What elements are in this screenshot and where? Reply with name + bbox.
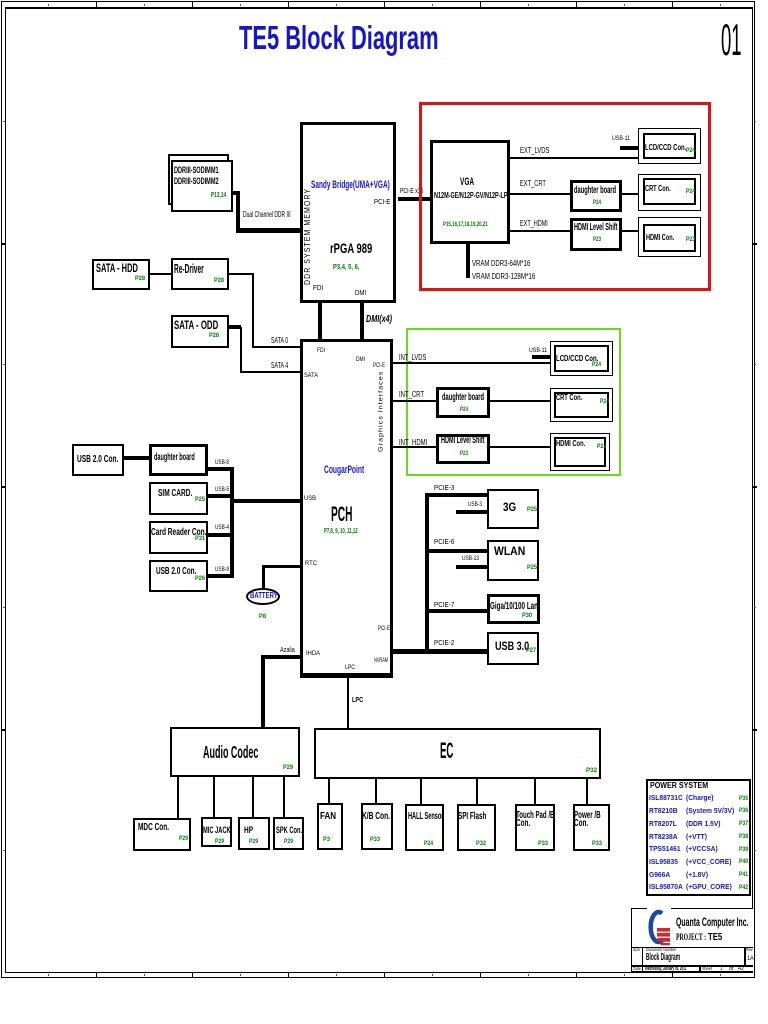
HDMI connector outer red: [638, 217, 701, 257]
zone number mark top 2: [144, 4, 145, 7]
zone number mark bottom 5: [432, 974, 433, 977]
title block date cell divider: [642, 965, 644, 973]
INT_LVDS net label: [399, 354, 426, 362]
USB 2.0 Con. connector bottom: [149, 560, 208, 592]
power rail TPS51461 function: [686, 845, 718, 853]
wire EC to TouchPad: [534, 777, 536, 804]
power rail RT8238A name: [649, 833, 678, 841]
wire EC to SPI: [476, 777, 478, 804]
wire SATA-ODD down to SATA 4: [240, 327, 242, 372]
page ref P24 lcd green: [592, 362, 601, 369]
USB 2.0 Con. label bottom: [156, 567, 196, 577]
page ref P24 crt green: [600, 399, 609, 406]
Card Reader Con. label: [151, 528, 206, 538]
zone divider tick top 3: [288, 2, 289, 7]
BATTERY label: [250, 592, 278, 600]
INT_HDMI net label: [399, 439, 427, 447]
USB-11 net label green: [529, 348, 547, 355]
wire INT_HDMI left: [393, 446, 436, 448]
Re-Driver block: [171, 258, 229, 290]
wire EXT_HDMI left: [510, 230, 570, 232]
zone divider tick bottom 6: [576, 972, 577, 978]
PCI-E x16 bus Sandy Bridge to VGA: [398, 197, 430, 201]
page ref P33 kb: [370, 837, 380, 843]
zone number mark bottom 8: [720, 974, 721, 977]
Azalia bus horizontal from PCH: [261, 655, 300, 659]
USB-11 net label red: [612, 136, 630, 143]
PCIE-3 net label: [434, 484, 454, 491]
DDRIII-SODIMM front box: [171, 160, 233, 212]
LPC bus PCH to EC: [347, 677, 349, 728]
WLAN module: [487, 540, 539, 581]
USB 2.0 Con. connector left: [72, 444, 124, 476]
POWER SYSTEM table box: [646, 779, 751, 896]
USB 2.0 Con. label left: [77, 455, 118, 465]
rev value 1A: [747, 956, 754, 962]
LCD/CCD connector outer red: [638, 128, 701, 164]
power rail RT8207L function: [686, 820, 721, 828]
zone number mark top 4: [336, 4, 337, 7]
PCH label: [331, 504, 352, 525]
DDRIII-SODIMM back box: [168, 154, 229, 205]
wire SATA 4 into PCH: [240, 371, 300, 373]
EXT_LVDS net label: [520, 147, 549, 155]
PCH pin RTC: [305, 561, 317, 568]
page ref P29 mic: [215, 839, 224, 845]
HALL Sensor connector: [405, 804, 444, 851]
USB-9 net label: [215, 567, 229, 573]
INT_CRT net label: [399, 391, 424, 399]
page ref P30 lan: [522, 613, 532, 620]
Touch Pad /B Con. connector: [515, 804, 555, 851]
zone number mark bottom 4: [336, 974, 337, 977]
sheet title: [239, 22, 439, 55]
zone divider tick bottom 2: [192, 972, 193, 978]
wire codec to MDC: [177, 775, 179, 818]
zone divider tick left 1: [2, 243, 5, 245]
PCIE-7 branch to LAN: [425, 609, 487, 613]
zone letter mark left 2: [3, 364, 5, 365]
SPK Con. connector: [273, 817, 304, 850]
title block rev cell divider: [744, 947, 746, 967]
rPGA 989 label: [330, 242, 372, 255]
zone letter mark right 1: [754, 121, 756, 122]
power rail RT8238A page P38: [739, 834, 748, 840]
zone divider tick bottom 4: [384, 972, 385, 978]
POWER SYSTEM title: [650, 781, 708, 789]
wire EXT_LVDS: [510, 157, 638, 159]
DDRIII-SODIMM1 label: [174, 166, 219, 175]
PCH pin PCI-E top: [373, 363, 385, 370]
DDR bus stub from SODIMM: [233, 191, 240, 195]
page ref P3,4,5,6: [333, 263, 359, 270]
USB-4 net label: [215, 525, 229, 531]
Quanta Computer Inc. label: [676, 916, 749, 928]
SATA - ODD connector: [171, 315, 229, 348]
PCIE-3 branch to 3G: [425, 493, 487, 497]
power rail ISL95870A name: [649, 883, 683, 891]
power rail ISL95835 function: [686, 858, 731, 866]
zone divider tick bottom 7: [672, 972, 673, 978]
page ref P24 lcd red: [686, 148, 695, 155]
EXT_HDMI net label: [520, 220, 548, 228]
HDMI Con. label red: [646, 233, 674, 242]
power rail ISL88731C page P35: [739, 796, 748, 802]
wire INT_CRT right: [490, 400, 550, 402]
EXT_CRT net label: [520, 180, 546, 188]
wire codec to SPK: [283, 775, 285, 817]
SATA - ODD label: [174, 319, 218, 331]
wire USB-4 stub: [208, 533, 234, 537]
PCH pin FDI: [317, 348, 325, 355]
PCIE-2 net label: [434, 639, 454, 646]
page ref P29 spk: [284, 839, 293, 845]
zone divider tick top 5: [480, 2, 481, 7]
LCD/CCD connector outer green: [550, 341, 613, 376]
title block sheet cell divider: [699, 965, 701, 973]
page ref P29 mdc: [179, 836, 188, 842]
zone number mark top 6: [528, 4, 529, 7]
SATA 0 net label: [271, 337, 288, 345]
DDRIII-SODIMM2 label: [174, 177, 219, 186]
CPU block Sandy Bridge rPGA 989: [300, 122, 396, 303]
zone number mark bottom 3: [240, 974, 241, 977]
zone letter mark left 4: [3, 850, 5, 851]
page ref P7-12: [324, 527, 358, 534]
Block Diagram doc title: [646, 953, 680, 963]
LCD/CCD connector inner red: [643, 133, 696, 159]
page ref P32 ec: [586, 768, 597, 775]
Power /B label line2: [574, 819, 588, 829]
wire USB-11 stub green: [532, 355, 550, 359]
CRT connector inner green: [554, 392, 609, 418]
power rail RT8207L name: [649, 820, 677, 828]
daughter board label red: [574, 186, 616, 196]
Giga/10/100 Lan label: [490, 602, 538, 612]
wire USB-8 stub: [208, 467, 234, 471]
power rail RT8207L page P37: [739, 821, 748, 827]
power rail RT8210B page P36: [739, 808, 748, 814]
PCH pin SATA: [304, 373, 318, 380]
sheet number 01: [721, 18, 742, 63]
page ref P23 shift green: [460, 451, 468, 458]
HDMI Level Shift label red: [574, 223, 618, 233]
PCIE-6 branch to WLAN: [425, 549, 487, 553]
PROJECT label: [676, 933, 706, 942]
3G label: [503, 503, 516, 515]
Date cell label: [633, 967, 641, 972]
LCD/CCD connector inner green: [554, 345, 609, 372]
title block top border gap (white, behind logo): [647, 907, 671, 910]
USB-5 net label: [215, 487, 229, 493]
title block size cell divider: [642, 947, 644, 967]
wire EC to PowerB: [586, 777, 588, 804]
title block separator row1: [631, 947, 753, 949]
SATA - HDD label: [96, 262, 138, 274]
DDR bus vertical: [236, 191, 240, 232]
MDC Con. label: [138, 823, 169, 833]
vertical label Graphics Interfaces: [381, 411, 383, 413]
wire EXT_CRT left: [510, 193, 570, 195]
Touch Pad /B label line1: [516, 811, 554, 821]
Sandy Bridge pin label DMI: [355, 289, 366, 296]
Power /B label line1: [574, 811, 601, 821]
sheet of label: [729, 967, 734, 972]
HDMI connector outer green: [550, 433, 610, 471]
PCH pin LPC: [345, 665, 355, 672]
daughter board block left: [149, 444, 208, 476]
SPK Con. label: [276, 825, 302, 834]
CRT Con. label green: [556, 393, 582, 402]
page ref P23 hdmi red: [686, 237, 695, 244]
LPC net label: [352, 696, 363, 703]
SATA - HDD connector: [92, 259, 150, 290]
HDMI connector inner red: [643, 224, 696, 252]
USB 3.0 block: [487, 632, 539, 665]
BATTERY symbol ellipse: [246, 588, 280, 605]
power rail RT8238A function: [686, 833, 707, 841]
daughter board label left: [154, 453, 195, 463]
wire INT_HDMI right: [490, 446, 550, 448]
wire USB-9 stub: [208, 574, 234, 578]
daughter board block red: [570, 180, 622, 212]
EC block: [314, 728, 601, 779]
PCH bottom thick edge: [300, 673, 393, 678]
Size cell label: [633, 948, 640, 953]
Power /B Con. connector: [573, 804, 610, 851]
zone number mark bottom 1: [48, 974, 49, 977]
zone divider tick left 3: [2, 729, 5, 731]
wire SATA 0 into PCH: [252, 346, 300, 348]
wire USB2 to daughter board: [124, 456, 149, 460]
daughter board block green: [436, 387, 490, 418]
page ref P15-21: [443, 222, 488, 229]
SPI Flash connector: [457, 804, 496, 851]
wire codec to HP: [252, 775, 254, 817]
date value: [645, 967, 686, 973]
MDC Con. connector: [133, 818, 191, 851]
zone letter mark right 4: [754, 850, 756, 851]
USB bus horizontal into PCH: [230, 499, 300, 503]
zone number mark bottom 6: [528, 974, 529, 977]
HDMI Con. label green: [556, 439, 585, 448]
sheet current 1: [720, 967, 723, 973]
power rail ISL95870A page P42: [739, 885, 748, 891]
HDMI Level Shift block red: [570, 218, 622, 251]
page ref P26 usb2: [195, 576, 205, 582]
VRAM bus from VGA: [466, 244, 470, 278]
page ref P32 spi: [476, 841, 486, 847]
zone number mark top 1: [48, 4, 49, 7]
page ref P24 hall: [424, 841, 433, 847]
zone number mark top 8: [720, 4, 721, 7]
EC label: [440, 740, 453, 763]
wire EC to HALL: [420, 777, 422, 804]
page ref P27 usb3: [526, 648, 536, 655]
power rail TPS51461 name: [649, 845, 681, 853]
power rail ISL95835 name: [649, 858, 678, 866]
USB bus vertical: [230, 467, 234, 578]
red highlight group box: [419, 102, 711, 291]
power rail RT8210B name: [649, 807, 678, 815]
PCH block CougarPoint: [300, 339, 393, 677]
Re-Driver label: [174, 262, 204, 275]
zone letter mark right 2: [754, 364, 756, 365]
VRAM DDR3-128M*16 label: [472, 272, 535, 280]
WLAN label: [494, 547, 525, 559]
wire codec to MIC JACK: [213, 775, 215, 817]
page ref P29 codec: [283, 765, 293, 772]
MIC JACK connector: [201, 817, 232, 847]
wire USB-3 stub: [456, 510, 487, 514]
page ref P33 power: [592, 841, 602, 847]
zone divider tick bottom 3: [288, 972, 289, 978]
VGA label: [460, 177, 474, 188]
zone number mark bottom 2: [144, 974, 145, 977]
HALL Sensor label: [408, 812, 443, 822]
page ref P8 battery: [259, 614, 266, 620]
zone letter mark right 3: [754, 607, 756, 608]
power rail ISL88731C function: [686, 794, 713, 802]
SPI Flash label: [458, 812, 486, 822]
wire USB-13 stub: [456, 565, 487, 569]
vertical label DDR SYSTEM MEMORY: [307, 243, 309, 245]
Sheet cell label: [702, 967, 712, 972]
Document Number cell label: [646, 948, 676, 953]
page ref P28 odd: [209, 333, 219, 340]
page ref P25 3g: [527, 507, 537, 514]
page ref P24 daughter red: [593, 200, 601, 207]
HP label: [244, 825, 253, 834]
zone number mark top 5: [432, 4, 433, 7]
PCIE-6 net label: [434, 538, 454, 545]
TE5 project value: [708, 933, 722, 943]
PCIE-2 bus PCH to USB 3.0: [393, 649, 487, 654]
zone divider tick top 6: [576, 2, 577, 7]
power rail G966A name: [649, 871, 670, 879]
Rev cell label: [746, 948, 753, 953]
Quanta logo: [645, 907, 673, 948]
PCH pin DMI: [356, 357, 365, 364]
page ref P25 sim: [195, 497, 205, 503]
power rail G966A page P41: [739, 872, 748, 878]
SIM CARD. label: [158, 489, 192, 499]
wire EC to K/B: [375, 777, 377, 803]
K/B Con. connector: [361, 803, 393, 850]
PCIE bus vertical: [425, 493, 429, 651]
SATA 4 net label: [271, 362, 288, 370]
zone divider tick bottom 1: [96, 972, 97, 978]
Sandy Bridge pin label PCI-E: [374, 198, 390, 205]
wire INT_LVDS: [393, 362, 550, 364]
wire EXT_HDMI right: [622, 230, 638, 232]
HDMI connector inner green: [554, 437, 606, 467]
zone number mark top 7: [624, 4, 625, 7]
LCD/CCD Con. label green: [556, 354, 598, 363]
page ref P3 fan: [323, 837, 330, 843]
title block outline: [631, 908, 753, 972]
Audio Codec block: [170, 727, 300, 777]
PCH pin IHDA: [306, 651, 320, 658]
wire USB-5 stub: [208, 494, 234, 498]
wire SATA-ODD stub: [229, 325, 241, 329]
daughter board label green: [442, 393, 484, 403]
PCH pin NVRAM: [374, 658, 388, 665]
CRT connector outer green: [550, 388, 613, 422]
wire EXT_CRT right: [622, 193, 638, 195]
USB 3.0 label: [495, 642, 529, 654]
wire EC to FAN: [328, 777, 330, 803]
page ref P23 hdmi green: [597, 444, 606, 451]
power rail RT8210B function: [686, 807, 734, 815]
CougarPoint label: [324, 465, 364, 476]
CRT connector inner red: [643, 178, 696, 205]
FDI bus Sandy Bridge to PCH: [318, 303, 322, 339]
PCIE-7 net label: [434, 601, 454, 608]
green highlight group box: [406, 328, 622, 477]
Azalia net label: [280, 646, 295, 653]
wire RTC horizontal: [262, 565, 300, 568]
GPU block VGA N12M: [430, 140, 510, 244]
USB-3 net label: [468, 502, 482, 508]
zone divider tick top 1: [96, 2, 97, 7]
page ref P23 shift red: [593, 237, 601, 244]
zone divider tick right 2: [753, 486, 757, 488]
USB-8 net label: [215, 460, 229, 466]
PCH pin USB: [304, 496, 316, 503]
zone letter mark left 3: [3, 607, 5, 608]
power rail ISL88731C name: [649, 794, 683, 802]
HP connector: [238, 817, 270, 850]
zone divider tick right 3: [753, 729, 757, 731]
Sandy Bridge pin label FDI: [313, 284, 323, 291]
Card Reader connector: [149, 521, 208, 554]
USB-13 net label: [462, 556, 479, 562]
CRT connector outer red: [638, 174, 701, 211]
Giga/10/100 Lan block: [487, 594, 540, 624]
zone divider tick top 2: [192, 2, 193, 7]
CRT Con. label red: [645, 184, 671, 193]
power rail ISL95835 page P40: [739, 859, 748, 865]
DDR bus horizontal to Sandy Bridge: [236, 228, 300, 233]
wire INT_CRT left: [393, 400, 436, 402]
sheet total 42: [738, 967, 744, 973]
Audio Codec label: [203, 744, 258, 762]
HDMI Level Shift label green: [441, 436, 485, 446]
zone divider tick top 7: [672, 2, 673, 7]
zone divider tick top 4: [384, 2, 385, 7]
power rail TPS51461 page P39: [739, 847, 748, 853]
3G module: [487, 489, 539, 529]
page ref P28 hdd: [135, 276, 145, 283]
Touch Pad /B label line2: [516, 819, 530, 829]
DMI(x4) net label: [366, 315, 392, 325]
MIC JACK label: [203, 825, 231, 834]
page ref P28 redriver: [214, 278, 224, 285]
SIM CARD connector: [149, 482, 208, 515]
N12M-GE/N12P-GV/N12P-LP label: [434, 191, 508, 200]
zone divider tick left 2: [2, 486, 5, 488]
page ref P31 cardreader: [195, 536, 205, 542]
wire SATA-HDD to Re-Driver: [150, 273, 171, 275]
wire USB-11 stub red: [620, 146, 638, 150]
Dual Channel DDR III label: [243, 211, 291, 219]
power rail G966A function: [686, 871, 708, 879]
PCH pin PCI-E bottom: [378, 626, 390, 633]
Azalia bus vertical to Audio Codec: [261, 655, 265, 727]
FAN label: [320, 812, 336, 822]
VRAM DDR3-64M*16 label: [472, 259, 530, 267]
